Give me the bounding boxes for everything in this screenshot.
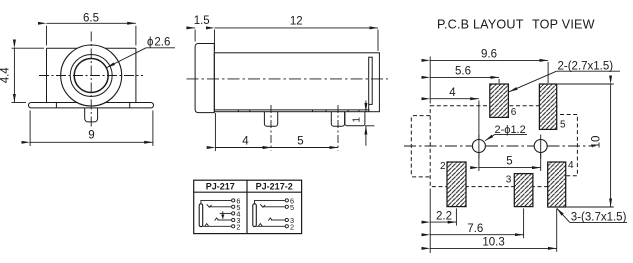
svg-text:3: 3 — [506, 174, 512, 185]
hole left — [472, 135, 485, 159]
svg-text:5: 5 — [297, 135, 303, 147]
base flange plate — [29, 103, 154, 108]
inner circle phi2.6 — [74, 59, 108, 93]
svg-text:6: 6 — [511, 107, 517, 118]
pin5 tip contact symbol — [207, 204, 212, 207]
svg-text:9.6: 9.6 — [481, 49, 497, 61]
pin4 drop arrow — [222, 211, 224, 219]
svg-text:ϕ 2.6: ϕ 2.6 — [147, 37, 170, 49]
svg-text:2: 2 — [290, 223, 294, 232]
dim 5.6 — [430, 66, 499, 83]
svg-text:5.6: 5.6 — [455, 66, 471, 78]
pin5 contact circle — [232, 205, 235, 208]
pin 2 (side) — [331, 112, 344, 127]
shield tab (side) — [345, 112, 365, 126]
label 2-(2.7x1.5) — [509, 60, 620, 91]
pcb centerline — [404, 145, 596, 147]
base ticks — [238, 110, 359, 112]
dashed body outline top view — [430, 106, 577, 187]
pin3 contact symbol — [215, 218, 219, 221]
pin6 contact circle right — [285, 199, 288, 202]
svg-text:10.3: 10.3 — [482, 237, 504, 249]
svg-text:4: 4 — [568, 160, 574, 171]
pin5 contact symbol right — [260, 204, 265, 207]
pin2 wire left cell — [203, 225, 232, 227]
svg-text:6.5: 6.5 — [83, 13, 99, 25]
label 2-phi1.2 — [485, 124, 527, 141]
pad 5 — [539, 84, 556, 129]
pad 2 — [447, 162, 466, 207]
dim 1 (tab protrusion) — [352, 101, 375, 146]
pin2 contact circle right — [285, 225, 288, 228]
pin6 wire left cell — [201, 200, 231, 203]
pin5 wire left cell — [210, 206, 232, 208]
flange step tick right — [129, 103, 131, 108]
pin2 contact symbol right — [258, 224, 262, 227]
svg-text:4: 4 — [449, 87, 456, 99]
dim 4 and 5 (side bottom) — [215, 113, 338, 151]
dim 7.6 — [430, 208, 523, 238]
dim 9.6 — [430, 49, 548, 83]
svg-text:TOP VIEW: TOP VIEW — [532, 18, 595, 32]
pin2 wire right cell — [256, 225, 285, 227]
label 3-(3.7x1.5) — [557, 208, 627, 223]
pcb left extension line — [429, 57, 431, 104]
svg-text:12: 12 — [290, 16, 303, 28]
pin3 contact symbol right — [268, 218, 272, 221]
svg-text:4: 4 — [242, 135, 249, 147]
dashed bushing bump top view — [411, 116, 430, 177]
pcb bottom left extension — [429, 189, 431, 254]
dim 1.5 — [186, 15, 209, 41]
svg-text:5: 5 — [506, 156, 512, 168]
svg-text:2-(2.7x1.5): 2-(2.7x1.5) — [558, 60, 614, 72]
svg-text:10: 10 — [591, 136, 603, 149]
pin2 contact circle — [232, 225, 235, 228]
middle circle — [70, 55, 112, 97]
dim 5 pcb — [479, 153, 541, 172]
svg-text:P.C.B LAYOUT: P.C.B LAYOUT — [437, 18, 524, 32]
rear cap — [369, 57, 373, 104]
dim 10 — [558, 84, 614, 207]
svg-text:PJ-217-2: PJ-217-2 — [256, 182, 293, 192]
svg-text:1.5: 1.5 — [194, 15, 210, 27]
svg-text:3-(3.7x1.5): 3-(3.7x1.5) — [571, 212, 627, 224]
label phi2.6 leader — [107, 37, 175, 68]
pin2 centerline — [337, 105, 339, 151]
dim 4.4 — [0, 48, 44, 102]
dim 12 — [215, 16, 379, 51]
svg-text:9: 9 — [88, 130, 94, 142]
body outline front view — [47, 48, 136, 102]
pad 4 — [548, 162, 566, 207]
dim 6.5 — [47, 13, 136, 46]
pin 1 (side) — [264, 112, 277, 127]
dim 9 — [30, 111, 153, 147]
pin2 contact symbol — [205, 224, 209, 227]
horizontal centerline — [39, 75, 143, 77]
sleeve bar left cell — [199, 204, 203, 227]
svg-text:PJ-217: PJ-217 — [206, 182, 235, 192]
pin3 contact circle right — [285, 218, 288, 221]
svg-text:1: 1 — [352, 117, 363, 123]
pin3 contact circle — [232, 218, 235, 221]
dim 10.3 — [430, 209, 557, 252]
pin6 wire right cell — [255, 200, 285, 203]
table frame — [194, 180, 302, 233]
pin3 wire right cell — [271, 219, 285, 221]
sleeve bar right cell — [253, 204, 256, 227]
pin3 wire left cell — [218, 219, 232, 221]
pad 6 — [490, 84, 509, 117]
svg-text:5: 5 — [560, 120, 566, 131]
svg-text:2: 2 — [440, 161, 446, 172]
pin5 wire right cell — [263, 206, 285, 208]
body side view — [214, 53, 379, 112]
pin4 wire left cell — [220, 212, 232, 214]
flange step tick left — [55, 103, 57, 108]
svg-text:4.4: 4.4 — [0, 67, 12, 84]
pad 3 — [514, 174, 533, 207]
dim 4 pcb — [430, 87, 479, 139]
pin6 contact circle — [232, 199, 235, 202]
pin5 contact circle right — [285, 205, 288, 208]
svg-text:2.2: 2.2 — [436, 210, 452, 222]
svg-text:2: 2 — [236, 223, 240, 232]
base inner line — [214, 109, 369, 111]
center mounting tab — [85, 108, 98, 122]
hole right — [534, 135, 547, 159]
svg-text:2-ϕ1.2: 2-ϕ1.2 — [495, 124, 526, 136]
pin1 centerline — [270, 105, 272, 151]
svg-text:5: 5 — [290, 203, 294, 212]
side centerline — [187, 78, 389, 80]
dim 2.2 — [430, 208, 456, 225]
pin4 contact circle — [232, 212, 235, 215]
vertical centerline — [90, 32, 92, 128]
outer circle (bushing face) — [61, 45, 122, 106]
svg-text:7.6: 7.6 — [467, 223, 483, 235]
bushing barrel — [195, 44, 214, 113]
